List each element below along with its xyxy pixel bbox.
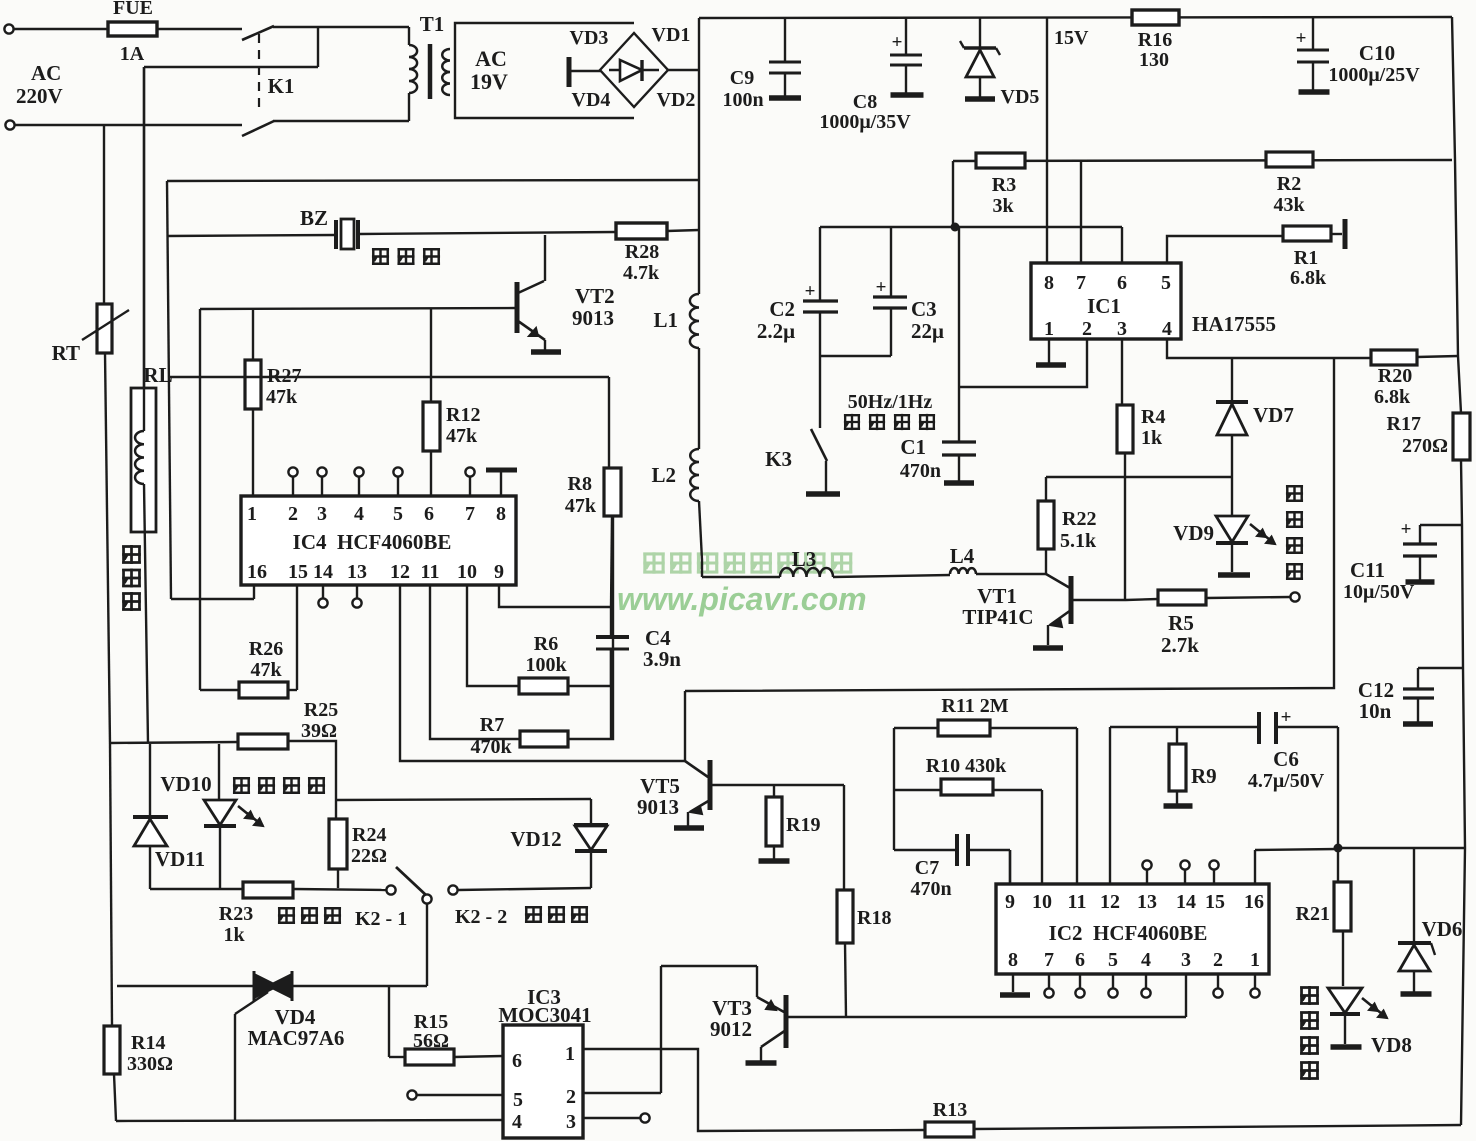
svg-text:7: 7 (1076, 272, 1086, 294)
wire (608, 377, 610, 468)
resistor R23 (243, 882, 293, 898)
svg-text:VD8: VD8 (1371, 1033, 1412, 1057)
terminal (288, 467, 297, 476)
svg-text:IC1: IC1 (1087, 294, 1121, 318)
svg-text:+: + (876, 277, 887, 298)
wire IC4 pin10 to R6 (467, 585, 519, 686)
svg-text:5: 5 (513, 1089, 523, 1111)
switch K2 pivot (422, 894, 431, 903)
zener VD5 (979, 18, 981, 48)
svg-text:9012: 9012 (710, 1017, 752, 1041)
wire node line (820, 226, 1122, 228)
bridge AC plate (567, 57, 572, 87)
svg-text:100n: 100n (722, 89, 763, 111)
svg-text:L3: L3 (792, 547, 817, 571)
svg-text:+: + (805, 281, 816, 302)
svg-text:130: 130 (1139, 49, 1169, 71)
svg-text:R24: R24 (352, 824, 386, 846)
wire (1231, 358, 1233, 402)
svg-text:R23: R23 (219, 903, 253, 925)
resistor R22 (1045, 477, 1047, 501)
svg-text:C7: C7 (915, 857, 939, 879)
svg-text:5: 5 (393, 503, 403, 525)
svg-text:9: 9 (494, 561, 504, 583)
wire (974, 1125, 1461, 1129)
wire IC3 pin3 (583, 1117, 640, 1119)
wire (953, 160, 1452, 161)
svg-text:R12: R12 (446, 404, 480, 426)
wire IC3 pin1 (583, 1049, 925, 1131)
svg-text:K1: K1 (268, 74, 295, 98)
ground (1299, 89, 1330, 95)
wire (610, 649, 612, 739)
wire (321, 477, 323, 496)
wire VD12 top line (337, 799, 591, 800)
capacitor C9 (784, 18, 786, 62)
terminal (1290, 592, 1299, 601)
wire (1338, 847, 1465, 849)
wire (1146, 870, 1148, 884)
inductor L3 (780, 568, 833, 577)
terminal (1142, 860, 1151, 869)
svg-text:10n: 10n (1359, 699, 1392, 723)
svg-text:2: 2 (288, 503, 298, 525)
label heating indicator chinese (233, 777, 250, 794)
wire (1076, 728, 1078, 884)
wire (322, 585, 324, 598)
resistor R10 (894, 789, 941, 791)
svg-text:10: 10 (457, 561, 477, 583)
svg-text:100k: 100k (525, 654, 567, 676)
secondary box AC 19V (455, 23, 634, 118)
ground (806, 491, 840, 497)
wire IC1 pin5 (1167, 236, 1283, 263)
resistor R15 (388, 986, 390, 1057)
ground (746, 1060, 777, 1066)
wire (1461, 460, 1465, 1125)
svg-text:VD7: VD7 (1253, 403, 1294, 427)
svg-text:14: 14 (313, 561, 333, 583)
svg-text:L1: L1 (653, 308, 678, 332)
capacitor C6 (1257, 712, 1261, 744)
resistor R5 (1158, 590, 1206, 605)
svg-text:www.picavr.com: www.picavr.com (617, 581, 867, 617)
wire (1337, 727, 1339, 882)
svg-text:14: 14 (1176, 891, 1196, 913)
svg-text:6.8k: 6.8k (1290, 267, 1327, 289)
buzzer BZ (334, 220, 338, 249)
bridge rectifier diamond (600, 33, 668, 107)
svg-text:11: 11 (421, 561, 440, 583)
svg-text:RT: RT (52, 341, 80, 365)
inductor L2 (690, 449, 699, 501)
wire (105, 353, 110, 744)
label power indicator chinese (1300, 986, 1319, 1005)
wire (293, 889, 386, 890)
wire (684, 691, 686, 761)
svg-text:39Ω: 39Ω (301, 720, 337, 742)
resistor R27 (252, 309, 254, 360)
bridge diode symbol (609, 69, 659, 71)
led VD10 (218, 744, 220, 800)
terminal (354, 467, 363, 476)
terminal (640, 1113, 649, 1122)
terminal (393, 467, 402, 476)
svg-text:13: 13 (1137, 891, 1157, 913)
wire (360, 232, 616, 234)
wire (292, 477, 294, 496)
terminal (1180, 860, 1189, 869)
ground (1406, 579, 1435, 585)
wire (1109, 727, 1111, 884)
switch K2-1 blade (396, 867, 427, 896)
wire R26 drop (199, 309, 201, 690)
resistor R25 (238, 734, 288, 749)
svg-text:6: 6 (424, 503, 434, 525)
svg-text:16: 16 (247, 561, 267, 583)
svg-text:IC4 HCF4060BE: IC4 HCF4060BE (293, 530, 452, 554)
svg-text:VD1: VD1 (652, 24, 691, 46)
resistor R9 (1176, 727, 1178, 744)
wire (820, 355, 891, 357)
svg-text:VD10: VD10 (160, 772, 211, 796)
svg-text:R26: R26 (249, 638, 283, 660)
svg-text:VD3: VD3 (570, 27, 609, 49)
wire right rail (1452, 17, 1461, 413)
resistor R28 (616, 223, 667, 239)
wire +V top rail (699, 17, 1452, 18)
zener VD6 (1413, 848, 1415, 942)
wire (144, 66, 318, 68)
wire 15V line (1046, 18, 1048, 263)
svg-text:6: 6 (1117, 272, 1127, 294)
svg-text:13: 13 (347, 561, 367, 583)
ground (1401, 991, 1432, 997)
label heater wire chinese (122, 545, 141, 564)
svg-text:470k: 470k (470, 736, 512, 758)
terminal (1075, 988, 1084, 997)
fuse FUE (108, 22, 157, 36)
svg-text:VD6: VD6 (1422, 917, 1463, 941)
label K2-1 chinese (278, 907, 295, 924)
resistor R16 (1132, 10, 1179, 25)
heater RL box (131, 388, 156, 532)
diode VD12 (590, 799, 592, 825)
wire (698, 348, 700, 449)
resistor R7 (520, 731, 568, 747)
terminal (1108, 988, 1117, 997)
resistor R21 (1334, 882, 1351, 931)
wire (337, 869, 339, 888)
switch K2-1 contact (386, 885, 395, 894)
svg-text:MOC3041: MOC3041 (498, 1003, 591, 1027)
resistor R13 (925, 1122, 974, 1137)
wire (702, 576, 780, 578)
wire (14, 124, 242, 126)
wire BZ line (167, 235, 335, 236)
wire (668, 69, 699, 71)
wire (397, 477, 399, 496)
wire IC2 pin16 (1255, 849, 1338, 850)
resistor R12 (430, 308, 432, 402)
resistor R18 (843, 785, 845, 890)
transformer T1 secondary coil (442, 49, 450, 95)
wire (469, 477, 471, 496)
wire (568, 516, 613, 739)
terminal (1250, 988, 1259, 997)
svg-text:15: 15 (1205, 891, 1225, 913)
resistor R14 (110, 744, 112, 1026)
svg-text:11: 11 (1068, 891, 1087, 913)
ground (1000, 992, 1030, 998)
wire (317, 27, 319, 67)
terminal (1044, 988, 1053, 997)
svg-text:T1: T1 (420, 12, 445, 36)
svg-text:+: + (1281, 707, 1292, 728)
wire (356, 585, 358, 598)
svg-text:R25: R25 (304, 699, 338, 721)
wire IC1 pin2 (959, 339, 1087, 387)
transistor VT3 (784, 995, 789, 1048)
resistor R3 (976, 153, 1025, 168)
wire main left rail (698, 18, 700, 294)
terminal (1213, 988, 1222, 997)
svg-text:VD11: VD11 (155, 847, 205, 871)
svg-text:56Ω: 56Ω (413, 1030, 449, 1052)
inductor L1 (690, 294, 699, 348)
svg-text:4: 4 (354, 503, 364, 525)
wire (1254, 974, 1256, 988)
wire IC1 pin1 (1048, 339, 1050, 363)
svg-text:1: 1 (1250, 949, 1260, 971)
node (1334, 844, 1343, 853)
svg-text:8: 8 (496, 503, 506, 525)
svg-text:FUE: FUE (113, 0, 153, 19)
label pulse indicator (1286, 485, 1303, 502)
wire (1048, 974, 1050, 988)
ic IC4 box (241, 496, 516, 585)
capacitor C4 (610, 607, 612, 637)
ground (1033, 645, 1063, 651)
wire (458, 888, 591, 890)
svg-text:+: + (1296, 28, 1307, 49)
terminal (465, 467, 474, 476)
ground (1403, 721, 1433, 727)
ground (759, 858, 790, 864)
wire (167, 181, 171, 599)
svg-text:1k: 1k (1141, 427, 1163, 449)
label K2-2 chinese (525, 906, 542, 923)
svg-text:C11: C11 (1350, 558, 1385, 582)
wire (667, 230, 699, 231)
svg-text:RL: RL (143, 363, 172, 387)
svg-text:15V: 15V (1054, 27, 1089, 49)
watermark text line1 (643, 552, 665, 574)
svg-text:2: 2 (566, 1086, 576, 1108)
wire (103, 125, 105, 304)
wire IC1 pin3 (1121, 339, 1123, 405)
transistor VT5 (685, 761, 708, 777)
led VD9 (1231, 477, 1233, 516)
wire triac line (117, 985, 254, 987)
svg-text:R28: R28 (625, 241, 659, 263)
wire (1126, 599, 1158, 600)
wire IC1 pin6 (1121, 227, 1123, 263)
svg-text:VD9: VD9 (1173, 521, 1214, 545)
svg-text:K2 - 1: K2 - 1 (355, 908, 407, 930)
svg-text:19V: 19V (470, 69, 508, 94)
svg-text:K2 - 2: K2 - 2 (455, 906, 507, 928)
svg-text:TIP41C: TIP41C (962, 605, 1033, 629)
terminal (1209, 860, 1218, 869)
svg-text:2.7k: 2.7k (1161, 633, 1199, 657)
resistor R11 (894, 727, 938, 729)
wire (144, 484, 148, 743)
wire (893, 728, 895, 850)
transformer T1 core (428, 44, 433, 99)
svg-text:47k: 47k (266, 386, 298, 408)
resistor R4 (1117, 405, 1133, 453)
wire (699, 501, 702, 560)
svg-text:5.1k: 5.1k (1060, 530, 1097, 552)
wire (833, 575, 950, 577)
inductor L4 (950, 568, 976, 574)
svg-text:12: 12 (1100, 891, 1120, 913)
wire (1217, 974, 1219, 988)
transformer T1 primary coil (409, 45, 417, 93)
wire (143, 67, 145, 388)
svg-text:1A: 1A (120, 43, 145, 65)
svg-text:R14: R14 (131, 1032, 165, 1054)
wire (1112, 974, 1114, 988)
wire (1041, 790, 1043, 884)
svg-text:43k: 43k (1273, 194, 1305, 216)
wire (273, 26, 409, 28)
wire (685, 358, 1334, 691)
wire (426, 904, 428, 986)
transistor VT2 (544, 235, 546, 281)
heater RL coil (135, 431, 144, 484)
switch K2-2 contact (448, 885, 457, 894)
led VD10 arrows (238, 806, 254, 819)
thermistor RT (97, 304, 112, 353)
svg-text:+: + (1401, 519, 1412, 540)
svg-text:1: 1 (1044, 318, 1054, 340)
wire (976, 573, 1046, 575)
svg-text:R11 2M: R11 2M (941, 695, 1008, 717)
svg-text:R16: R16 (1138, 29, 1172, 51)
svg-text:6: 6 (1075, 949, 1085, 971)
svg-text:9013: 9013 (637, 795, 679, 819)
svg-text:R7: R7 (480, 714, 504, 736)
svg-text:470n: 470n (900, 460, 941, 482)
transistor VT1 (1046, 574, 1070, 588)
svg-text:4.7k: 4.7k (623, 262, 660, 284)
svg-text:470n: 470n (910, 878, 951, 900)
wire (571, 70, 601, 72)
svg-text:C3: C3 (911, 297, 937, 321)
label buzzer chinese (372, 248, 389, 265)
ground (674, 825, 704, 831)
resistor R1 (1283, 226, 1331, 241)
resistor R17 (1453, 413, 1470, 460)
wire (157, 28, 242, 30)
svg-text:VD4: VD4 (572, 89, 611, 111)
capacitor C3 (890, 227, 892, 297)
svg-text:1: 1 (565, 1043, 575, 1065)
wire IC4 pin11 to R7 (430, 585, 520, 739)
svg-text:C9: C9 (730, 67, 754, 89)
svg-text:9: 9 (1005, 891, 1015, 913)
svg-text:10: 10 (1032, 891, 1052, 913)
svg-text:3: 3 (1117, 318, 1127, 340)
wire IC2 pin3 (1185, 974, 1187, 1017)
capacitor C7 (894, 849, 957, 851)
svg-text:R22: R22 (1062, 508, 1096, 530)
svg-text:330Ω: 330Ω (127, 1053, 173, 1075)
terminal AC L (4, 24, 13, 33)
svg-text:3.9n: 3.9n (643, 647, 681, 671)
diode VD7 (1216, 400, 1248, 404)
svg-text:2: 2 (1082, 318, 1092, 340)
svg-text:1: 1 (247, 503, 257, 525)
wire (1145, 974, 1147, 988)
wire IC4 pin12 to VT5 (400, 585, 685, 761)
svg-text:VT2: VT2 (575, 284, 615, 308)
wire (1046, 476, 1232, 478)
wire IC1 pin7 (1080, 161, 1082, 263)
capacitor C1 (958, 227, 960, 442)
svg-text:VD5: VD5 (1001, 86, 1040, 108)
svg-text:6.8k: 6.8k (1374, 386, 1411, 408)
ground (891, 92, 924, 98)
switch K3 (819, 356, 821, 428)
svg-text:R5: R5 (1168, 611, 1194, 635)
svg-text:7: 7 (465, 503, 475, 525)
svg-text:5: 5 (1161, 272, 1171, 294)
terminal (407, 1090, 416, 1099)
capacitor C10 (1312, 17, 1314, 50)
svg-text:R10 430k: R10 430k (926, 755, 1007, 777)
svg-text:R6: R6 (534, 633, 558, 655)
svg-text:50Hz/1Hz: 50Hz/1Hz (848, 391, 933, 413)
wire (143, 67, 145, 431)
svg-text:R1: R1 (1294, 247, 1318, 269)
diode VD11 (149, 744, 151, 817)
svg-text:47k: 47k (565, 495, 597, 517)
svg-text:9013: 9013 (572, 306, 614, 330)
wire (14, 28, 108, 30)
svg-text:C2: C2 (769, 297, 795, 321)
ground (531, 349, 561, 355)
wire (1079, 974, 1081, 988)
wire (1009, 850, 1011, 884)
svg-text:L2: L2 (651, 463, 676, 487)
svg-text:2: 2 (1213, 949, 1223, 971)
resistor R20 (1371, 350, 1417, 365)
svg-text:3k: 3k (992, 195, 1014, 217)
ground (1036, 362, 1066, 368)
wire (660, 966, 662, 1093)
svg-text:4: 4 (512, 1111, 522, 1133)
svg-text:220V: 220V (16, 84, 63, 108)
svg-text:R19: R19 (786, 814, 820, 836)
wire (611, 516, 612, 607)
capacitor C11 (1420, 524, 1462, 526)
ground (1331, 1044, 1362, 1050)
svg-text:R9: R9 (1191, 764, 1217, 788)
antenna terminal bar (1343, 219, 1348, 249)
